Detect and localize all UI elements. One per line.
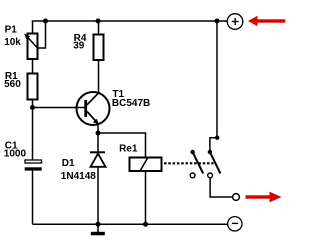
transistor T1 emitter stroke with arrow	[87, 112, 99, 125]
wire R4 top	[98, 21, 100, 35]
svg-text:D1: D1	[62, 158, 75, 169]
node base junction	[30, 105, 35, 110]
svg-text:BC547B: BC547B	[112, 98, 150, 109]
wire C1 bottom to bottom rail	[32, 171, 34, 225]
transistor T1 base bar	[84, 100, 87, 117]
svg-text:10k: 10k	[4, 37, 21, 48]
node emitter junction	[96, 131, 101, 136]
wire emitter to node	[97, 125, 99, 134]
switch pole 1 contact circle	[190, 173, 195, 178]
wire P1 to R1	[32, 59, 34, 74]
svg-text:39: 39	[73, 41, 85, 52]
diode D1 cathode bar	[90, 151, 105, 153]
diode D1 triangle	[91, 154, 106, 167]
node relay bottom junction	[143, 222, 148, 227]
svg-text:560: 560	[4, 79, 21, 90]
transistor T1 collector stroke	[87, 93, 99, 105]
switch pole 2 contact circle	[208, 173, 213, 178]
switch pole 1 lever	[193, 152, 204, 174]
node P1 wiper tie junction	[43, 19, 48, 24]
wire pole 2 contact to output circle	[210, 178, 233, 197]
node D1 ground junction	[96, 222, 101, 227]
svg-text:Re1: Re1	[119, 144, 138, 155]
relay Re1 coil diagonal	[140, 158, 148, 171]
wire emitter node to D1 cathode	[97, 133, 99, 152]
switch pole 2 lever	[210, 152, 221, 174]
ground symbol	[97, 224, 99, 232]
potentiometer P1 wiper arrow	[26, 36, 38, 49]
wire switch branch from top rail down	[210, 21, 217, 152]
node switch branch junction	[215, 19, 220, 24]
potentiometer P1 body	[28, 34, 38, 60]
svg-text:P1: P1	[5, 25, 18, 36]
terminal plus	[227, 14, 243, 30]
wire R4 bottom to T1 collector	[98, 60, 100, 94]
resistor R4	[94, 35, 104, 61]
wire D1 anode to bottom rail	[97, 167, 99, 224]
svg-text:1000: 1000	[4, 149, 27, 160]
arrow red input (points left)	[248, 16, 258, 27]
capacitor C1 positive plate	[25, 160, 42, 163]
arrow red output (points right)	[246, 195, 271, 198]
svg-text:1N4148: 1N4148	[61, 171, 96, 182]
wire bottom rail	[33, 223, 228, 225]
switch pole 2 common dot	[208, 150, 212, 154]
wire relay bottom to rail	[145, 171, 147, 224]
node switch elbow dot	[215, 136, 219, 140]
wire top rail from P1 top to plus terminal	[33, 21, 228, 34]
wire emitter node to relay	[98, 133, 146, 158]
mechanical linkage dashed line	[164, 162, 214, 164]
terminal minus	[228, 217, 242, 231]
wire base node to T1 base	[33, 107, 86, 109]
wire R1 bottom to base node	[32, 100, 34, 108]
switch pole 1 common dot	[190, 150, 194, 154]
capacitor C1 negative plate	[25, 167, 42, 170]
resistor R1	[28, 74, 38, 100]
node R4 top junction	[96, 19, 101, 24]
relay Re1 coil box	[130, 158, 162, 172]
wire P1 wiper tie: junction down then left to wiper	[38, 21, 46, 48]
wire base node down to C1	[32, 108, 34, 161]
transistor T1 circle	[77, 92, 110, 125]
node output open circle	[233, 194, 240, 201]
